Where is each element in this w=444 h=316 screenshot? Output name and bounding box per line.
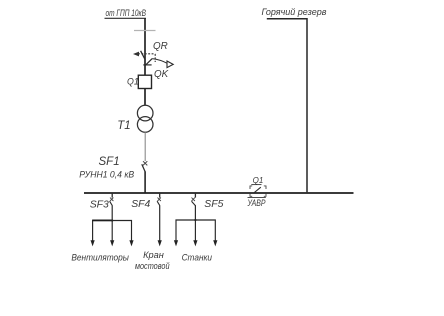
svg-text:Кран: Кран [143, 250, 164, 260]
svg-text:УАВР: УАВР [247, 198, 266, 208]
svg-text:QR: QR [153, 41, 168, 52]
svg-text:T1: T1 [117, 120, 130, 132]
svg-text:SF3: SF3 [90, 200, 109, 211]
svg-text:QK: QK [154, 69, 169, 80]
svg-text:мостовой: мостовой [135, 261, 170, 271]
svg-text:Горячий резерв: Горячий резерв [262, 7, 327, 17]
svg-text:Q1: Q1 [127, 77, 139, 87]
svg-text:SF1: SF1 [99, 156, 120, 168]
svg-text:Q1: Q1 [253, 176, 264, 185]
svg-text:РУНН1 0,4 кВ: РУНН1 0,4 кВ [79, 169, 134, 179]
svg-text:Вентиляторы: Вентиляторы [71, 252, 129, 262]
svg-text:SF4: SF4 [131, 199, 150, 210]
svg-text:SF5: SF5 [204, 199, 223, 210]
svg-text:от ГПП 10кВ: от ГПП 10кВ [106, 8, 147, 18]
svg-text:Станки: Станки [182, 252, 212, 262]
